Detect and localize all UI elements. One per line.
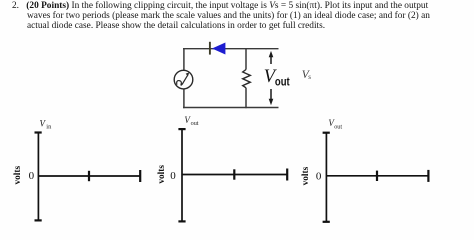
svg-text:in: in <box>46 124 52 131</box>
resistor R zigzag <box>243 70 251 88</box>
graph1 label Vin <box>40 119 53 131</box>
diode D1 triangle <box>212 43 225 55</box>
svg-text:out: out <box>275 77 290 89</box>
label Vout <box>264 67 290 88</box>
graph1 volts label <box>13 166 23 185</box>
graph3 y-axis <box>323 133 330 222</box>
svg-text:s: s <box>308 73 311 81</box>
graph3 zero label <box>316 170 322 182</box>
diode D1 cathode bar <box>209 42 211 55</box>
resistor R wire upper <box>245 48 247 70</box>
graph2 zero label <box>170 170 176 182</box>
svg-text:0: 0 <box>316 170 322 182</box>
graph3 label Vout <box>328 118 342 130</box>
graph1 zero label <box>29 170 35 182</box>
graph2 x-axis <box>182 169 288 181</box>
graph2 volts label <box>157 165 167 184</box>
svg-text:out: out <box>334 124 342 131</box>
graph1 x-axis <box>38 170 140 182</box>
svg-text:0: 0 <box>29 170 35 182</box>
wire left upper <box>183 48 185 71</box>
wire bottom <box>183 107 279 109</box>
label Vs <box>302 69 311 81</box>
svg-text:volts: volts <box>13 166 23 185</box>
Vout arrow down <box>269 89 274 105</box>
graph3 volts label <box>301 166 311 185</box>
resistor R wire lower <box>245 88 247 108</box>
graph3 x-axis <box>326 170 429 182</box>
svg-text:out: out <box>191 120 199 127</box>
graph2 y-axis <box>178 129 185 221</box>
source VS circle <box>174 70 193 89</box>
wire left lower <box>183 89 185 108</box>
graph2 label Vout <box>184 115 198 127</box>
svg-text:0: 0 <box>170 170 176 182</box>
Vout arrow up <box>269 51 274 64</box>
wire top <box>183 48 279 50</box>
graph1 y-axis <box>35 133 42 221</box>
svg-text:volts: volts <box>157 165 167 184</box>
svg-text:volts: volts <box>301 166 311 185</box>
